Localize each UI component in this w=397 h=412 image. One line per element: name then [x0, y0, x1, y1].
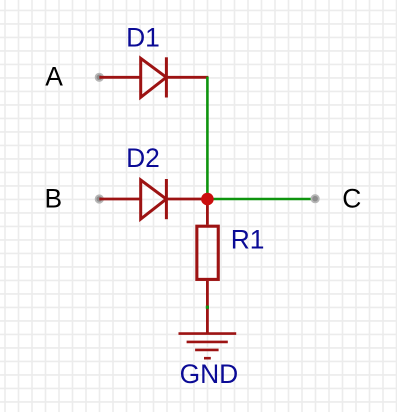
wire B to D2 anode [99, 198, 140, 201]
diode D2 [141, 179, 167, 219]
svg-text:GND: GND [180, 359, 239, 389]
resistor R1 [197, 226, 218, 279]
svg-text:R1: R1 [231, 224, 265, 254]
wire D1 cathode to corner [166, 76, 208, 79]
wire D2 cathode to junction [166, 198, 207, 201]
junction dot [201, 193, 214, 206]
diode D1 [141, 57, 167, 97]
svg-text:D1: D1 [126, 23, 160, 53]
net label B [45, 184, 63, 214]
label R1 [231, 224, 265, 254]
wire stub (green) between R1 pin and GND pin [206, 306, 209, 309]
wire junction to C (green) [207, 198, 315, 201]
svg-text:B: B [45, 184, 63, 214]
wire R1 bottom to ground [206, 281, 209, 334]
label D2 [126, 143, 160, 173]
net label A [45, 62, 63, 92]
wire junction to R1 top [206, 199, 209, 225]
pin dot node B [96, 195, 103, 202]
wire A to D1 anode [99, 76, 140, 79]
ground [179, 334, 237, 359]
net label C [342, 184, 361, 214]
label GND [180, 359, 239, 389]
svg-text:C: C [342, 184, 361, 214]
svg-text:A: A [45, 62, 63, 92]
label D1 [126, 23, 160, 53]
svg-text:D2: D2 [126, 143, 160, 173]
pin dot node C [311, 195, 318, 202]
wire vertical net (green) corner to junction [206, 77, 209, 199]
pin dot node A [96, 74, 103, 81]
